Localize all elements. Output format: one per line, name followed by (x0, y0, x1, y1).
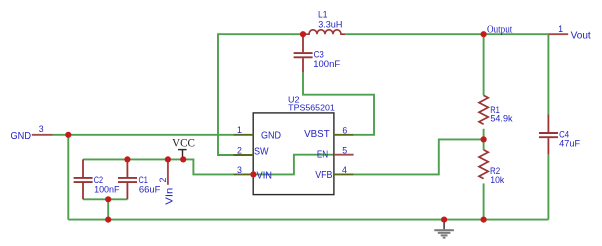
svg-text:4: 4 (342, 165, 347, 175)
svg-text:1: 1 (558, 24, 563, 34)
svg-text:3: 3 (39, 124, 44, 134)
svg-text:VIn: VIn (164, 188, 176, 205)
wire output rail L1 to C4 (345, 33, 548, 35)
svg-text:VIN: VIN (257, 170, 273, 181)
svg-text:100nF: 100nF (94, 185, 120, 196)
wire C2/C1 bottom join (83, 198, 127, 200)
pin 2 stub SW (234, 154, 254, 156)
port GND stub (32, 134, 53, 136)
wire EN-to-VIN inside U2 (253, 155, 334, 175)
wire GND down left side (67, 135, 69, 220)
resistor R1 (479, 95, 488, 124)
wire C2/C1 bottom to rail (107, 199, 109, 219)
svg-text:2: 2 (158, 177, 168, 182)
junction node L1/C3 (300, 31, 306, 37)
svg-text:1: 1 (237, 125, 242, 135)
svg-text:47uF: 47uF (559, 138, 580, 149)
svg-text:VCC: VCC (172, 138, 195, 150)
wire bottom ground rail (68, 219, 548, 221)
pin 6 stub VBST (334, 134, 354, 136)
svg-text:3: 3 (237, 165, 242, 175)
port VIn stub (167, 159, 169, 184)
svg-text:6: 6 (342, 125, 347, 135)
capacitor C1 (118, 159, 137, 199)
svg-text:3.3uH: 3.3uH (318, 19, 342, 30)
junction node VIN pin3 (250, 171, 256, 177)
pin 3 stub VIN (234, 173, 254, 175)
wire C4 branch down (547, 34, 549, 114)
junction node C1C2 bottom (105, 196, 111, 202)
svg-text:Vout: Vout (571, 30, 591, 42)
pin 1 stub GND (234, 134, 254, 136)
svg-text:EN: EN (317, 150, 328, 161)
wire top-left rail SW node (218, 34, 303, 155)
svg-text:66uF: 66uF (139, 185, 161, 196)
inductor L1 (303, 30, 345, 34)
svg-text:TPS565201: TPS565201 (288, 102, 335, 112)
port Vout stub (548, 33, 568, 35)
capacitor C2 (74, 159, 93, 199)
wire C4 bottom to rail (547, 155, 549, 220)
pin 5 stub EN unconnected (334, 154, 354, 156)
junction node VCC (180, 156, 186, 162)
svg-text:54.9k: 54.9k (490, 114, 512, 125)
junction node GND-left (65, 132, 71, 138)
junction node bottom rail left (105, 217, 111, 223)
svg-text:2: 2 (237, 145, 242, 155)
resistor R2 (479, 150, 488, 179)
svg-text:10k: 10k (490, 175, 504, 186)
junction node C1 top (124, 156, 130, 162)
power flag VCC (172, 138, 195, 160)
wire GND left to pin1 (53, 134, 234, 136)
capacitor C3 (294, 34, 313, 72)
ground symbol (434, 220, 454, 239)
svg-text:100nF: 100nF (313, 59, 340, 70)
junction node ground (441, 217, 447, 223)
svg-text:VFB: VFB (315, 170, 333, 181)
wire R1 to R2 (483, 129, 485, 150)
svg-text:GND: GND (261, 130, 281, 141)
wire R2 bottom (483, 183, 485, 219)
wire VFB feedback (354, 139, 484, 174)
junction node VIn port (165, 156, 171, 162)
junction node Output (481, 31, 487, 37)
junction node R2 bottom (481, 217, 487, 223)
wire C3 bottom to VBST (303, 72, 374, 134)
wire VCC rail to VIN pin3 (83, 159, 234, 174)
svg-text:5: 5 (342, 145, 347, 155)
U2 IC body TPS565201 (253, 113, 334, 195)
capacitor C4 (539, 115, 558, 155)
wire R1 branch from output (483, 34, 485, 95)
svg-text:GND: GND (11, 130, 32, 142)
U2 IC body background (253, 113, 334, 195)
pin 4 stub VFB (334, 173, 354, 175)
svg-text:Output: Output (487, 25, 512, 36)
junction node VFB divider (481, 136, 487, 142)
svg-text:VBST: VBST (304, 129, 330, 140)
svg-text:SW: SW (254, 146, 269, 157)
